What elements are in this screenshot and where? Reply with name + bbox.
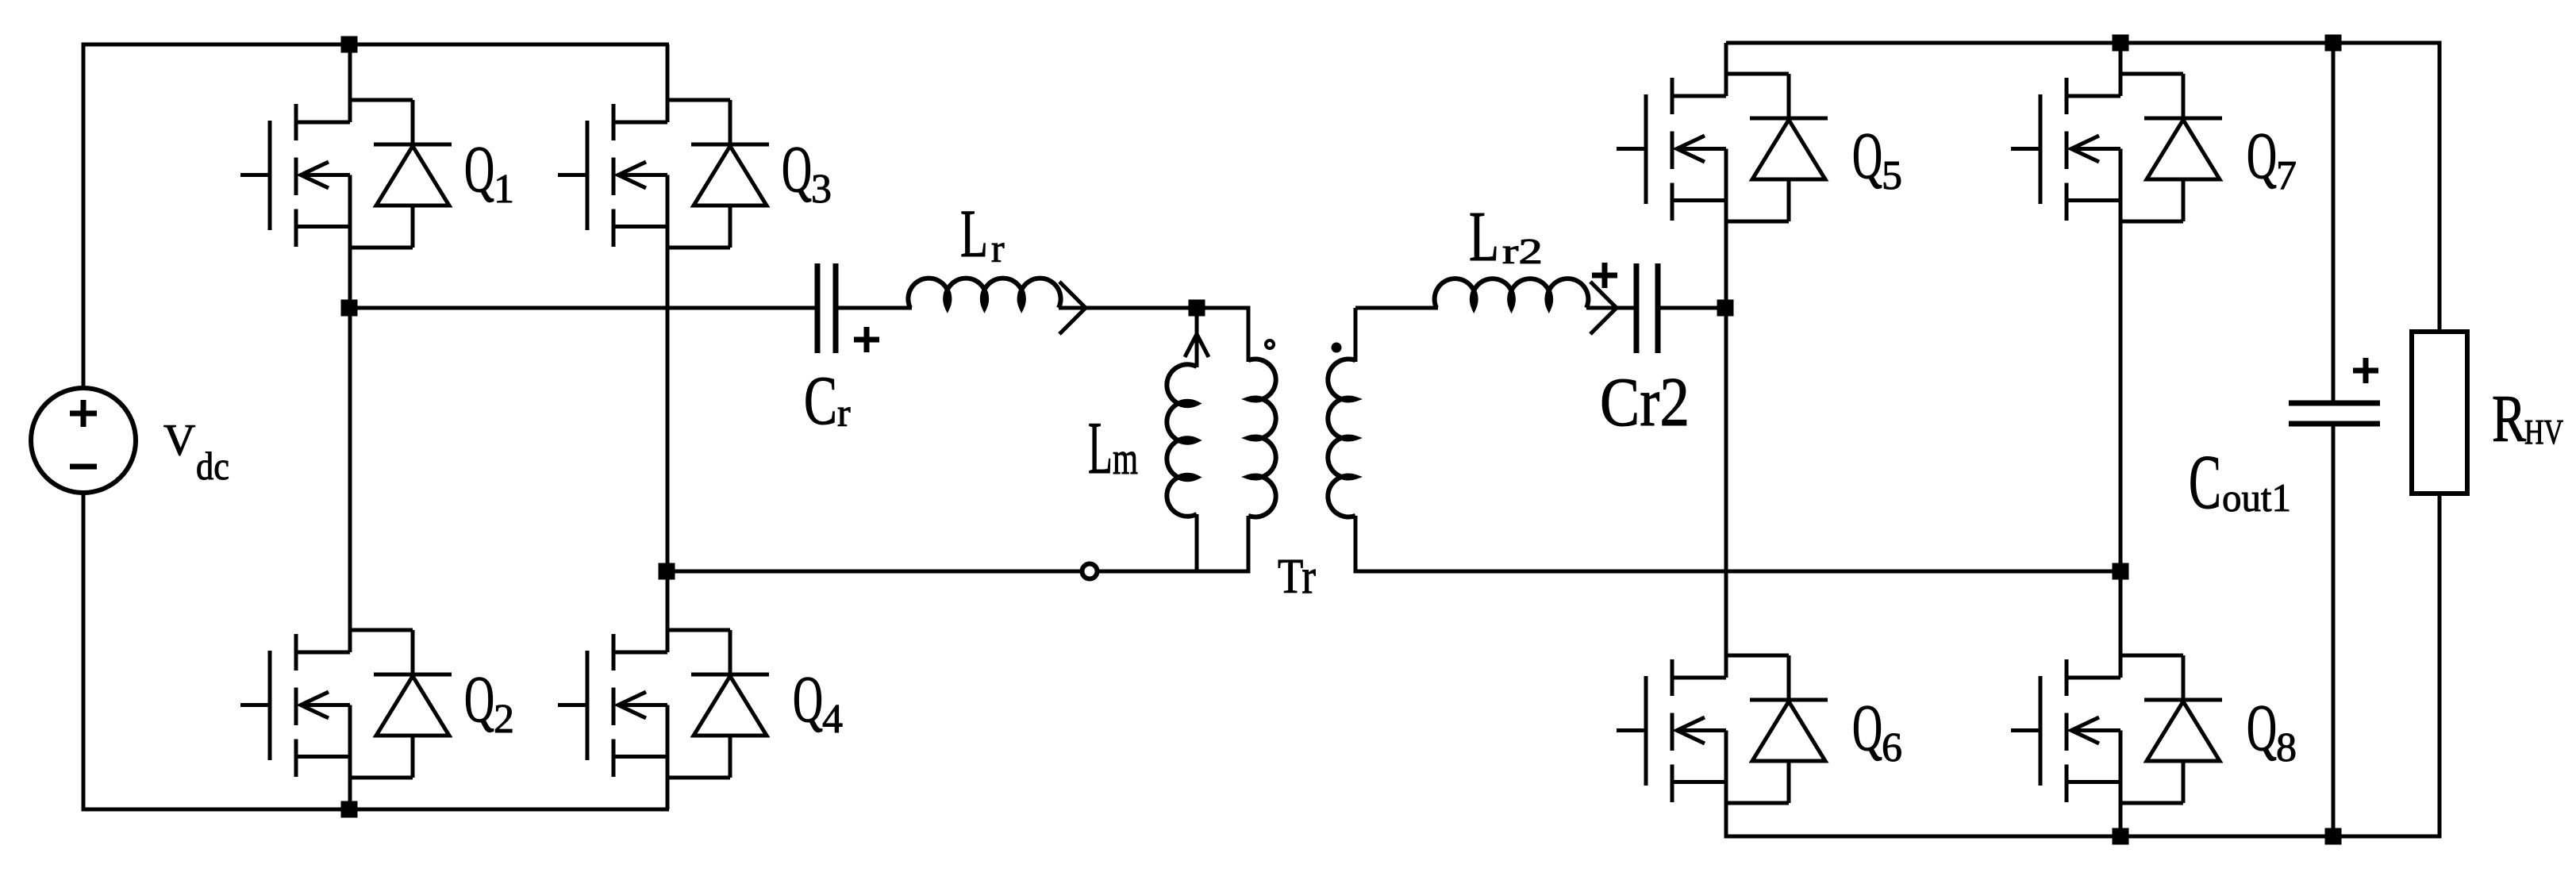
transistor Q3 bbox=[558, 44, 769, 571]
label Vdc bbox=[163, 416, 229, 488]
svg-text:L: L bbox=[960, 195, 988, 271]
transistor Q8 bbox=[2011, 571, 2222, 839]
label Q3 bbox=[782, 133, 832, 212]
node junction bottom rail Q8 bbox=[2113, 828, 2129, 845]
label Cout1 bbox=[2189, 440, 2291, 525]
svg-text:R: R bbox=[2492, 382, 2526, 456]
voltage source Vdc bbox=[31, 388, 136, 493]
wire Lr2 to Cr2 bbox=[1586, 282, 1636, 334]
svg-text:C: C bbox=[804, 363, 837, 440]
svg-text:L: L bbox=[1088, 407, 1113, 490]
transformer Tr secondary winding bbox=[1328, 308, 1355, 574]
transistor Q5 bbox=[1617, 43, 1828, 308]
node junction top rail Q7 bbox=[2113, 35, 2129, 52]
label RHV bbox=[2492, 382, 2563, 456]
transistor Q4 bbox=[558, 571, 769, 809]
wire transformer bottom-left bbox=[667, 570, 1251, 574]
svg-text:HV: HV bbox=[2524, 413, 2563, 451]
svg-text:5: 5 bbox=[1882, 153, 1902, 198]
wire left vertical (Vdc top) bbox=[82, 43, 86, 390]
node junction bottom-left bbox=[341, 801, 358, 818]
node junction top-left bbox=[341, 36, 358, 53]
wire node to primary bbox=[1197, 306, 1251, 310]
label Lr bbox=[960, 195, 1005, 271]
label Q5 bbox=[1852, 119, 1902, 198]
svg-text:2: 2 bbox=[494, 697, 514, 742]
wire Lr to node bbox=[1059, 282, 1197, 334]
wire top-left rail bbox=[83, 43, 669, 47]
wire node-A horizontal bbox=[349, 306, 818, 310]
node junction B bbox=[659, 563, 675, 580]
secondary polarity dot bbox=[1332, 343, 1342, 353]
svg-text:L: L bbox=[1469, 198, 1499, 276]
transistor Q6 bbox=[1617, 308, 1828, 839]
label Lr2 bbox=[1469, 198, 1543, 276]
svg-text:r: r bbox=[991, 226, 1005, 271]
label Cout1 plus bbox=[2353, 358, 2378, 383]
svg-text:r: r bbox=[837, 390, 851, 435]
label Cr plus bbox=[854, 327, 879, 352]
wire Cr to Lr bbox=[836, 306, 912, 310]
svg-text:Cr2: Cr2 bbox=[1600, 364, 1690, 441]
node junction secondary-bottom bbox=[2113, 563, 2129, 580]
svg-text:7: 7 bbox=[2276, 153, 2297, 198]
label Cr bbox=[804, 363, 851, 440]
svg-text:Q: Q bbox=[464, 663, 494, 736]
svg-text:8: 8 bbox=[2276, 725, 2297, 770]
node junction top rail Cout bbox=[2325, 35, 2342, 52]
wire Cout bottom bbox=[2332, 424, 2336, 836]
svg-text:3: 3 bbox=[811, 167, 832, 212]
inductor Lm bbox=[1167, 308, 1209, 574]
wire secondary bottom bbox=[1355, 570, 2120, 574]
label Q2 bbox=[464, 663, 514, 742]
wire bottom-right rail bbox=[1726, 835, 2442, 839]
label Q1 bbox=[464, 133, 514, 212]
transformer Tr primary winding bbox=[1248, 308, 1276, 574]
svg-text:m: m bbox=[1113, 432, 1138, 484]
svg-text:6: 6 bbox=[1882, 725, 1902, 770]
label Q4 bbox=[793, 663, 843, 742]
wire secondary top bbox=[1355, 306, 1438, 310]
wire bottom-left rail bbox=[83, 808, 669, 812]
svg-text:C: C bbox=[2189, 440, 2221, 525]
transistor Q1 bbox=[240, 44, 452, 308]
svg-text:Q: Q bbox=[464, 133, 494, 206]
node junction Cr2-leg bbox=[1717, 300, 1734, 317]
svg-text:Q: Q bbox=[782, 133, 812, 206]
wire RHV bottom bbox=[2438, 492, 2442, 836]
inductor Lr2 bbox=[1435, 279, 1589, 308]
capacitor Cr bbox=[817, 263, 836, 353]
svg-text:Q: Q bbox=[1852, 691, 1882, 765]
svg-text:1: 1 bbox=[494, 167, 514, 212]
svg-text:out1: out1 bbox=[2222, 475, 2291, 520]
primary polarity dot bbox=[1266, 340, 1274, 348]
svg-text:Q: Q bbox=[1852, 119, 1882, 193]
resistor RHV bbox=[2412, 332, 2467, 494]
svg-text:Q: Q bbox=[2247, 119, 2277, 193]
svg-text:Tr: Tr bbox=[1278, 550, 1316, 604]
transistor Q2 bbox=[240, 308, 452, 809]
svg-text:Q: Q bbox=[2247, 691, 2277, 765]
wire Cout top bbox=[2332, 43, 2336, 405]
svg-text:Q: Q bbox=[793, 663, 823, 736]
svg-text:r2: r2 bbox=[1502, 232, 1543, 271]
node junction Lr-Lm bbox=[1189, 300, 1205, 317]
label Tr bbox=[1278, 550, 1316, 604]
label Cr2 plus bbox=[1592, 263, 1617, 288]
label Q7 bbox=[2247, 119, 2297, 198]
svg-text:4: 4 bbox=[822, 697, 843, 742]
svg-text:V: V bbox=[163, 416, 195, 465]
capacitor Cr2 bbox=[1636, 263, 1658, 353]
wire Cr2 to node bbox=[1658, 306, 1725, 310]
capacitor Cout1 bbox=[2289, 403, 2380, 424]
label Lm bbox=[1088, 407, 1138, 490]
label Q6 bbox=[1852, 691, 1902, 770]
wire RHV top bbox=[2438, 43, 2442, 333]
inductor Lr bbox=[908, 279, 1060, 308]
node junction A bbox=[341, 300, 358, 317]
node junction bottom rail Cout bbox=[2325, 828, 2342, 845]
label Q8 bbox=[2247, 691, 2297, 770]
terminal circle bbox=[1082, 564, 1098, 579]
svg-text:dc: dc bbox=[196, 444, 229, 488]
transistor Q7 bbox=[2011, 43, 2222, 571]
wire left vertical (Vdc bottom) bbox=[82, 491, 86, 812]
wire top-right rail bbox=[1726, 41, 2442, 45]
label Cr2 bbox=[1600, 364, 1690, 441]
